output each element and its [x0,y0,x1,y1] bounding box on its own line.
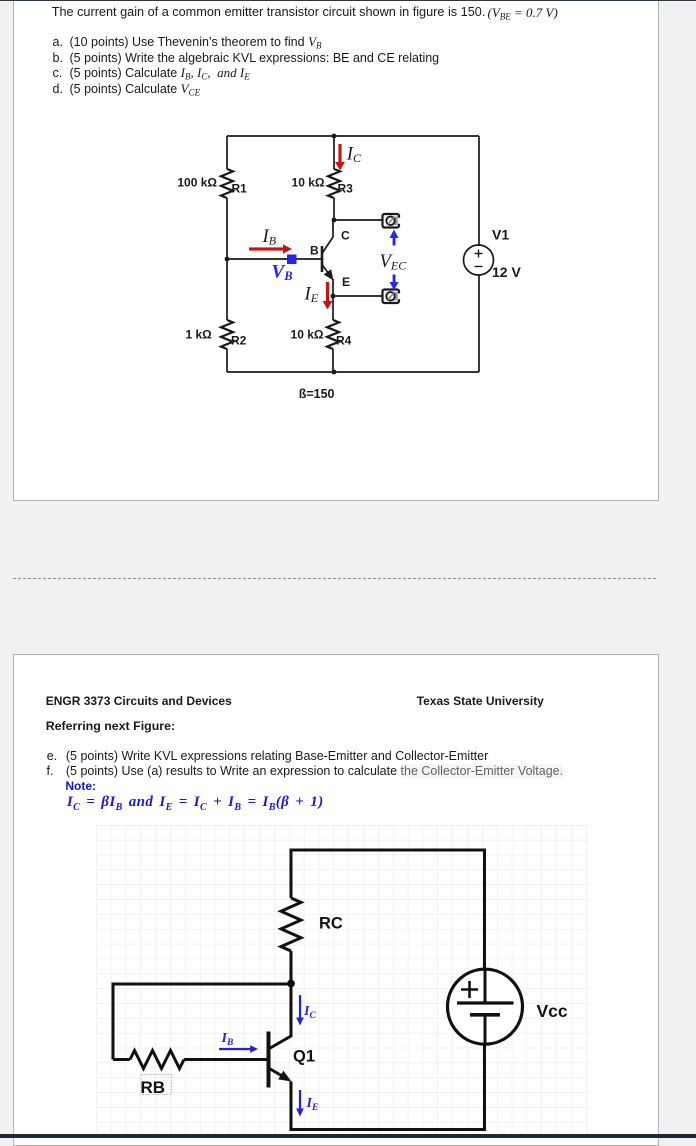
svg-text:Vcc: Vcc [537,1001,568,1021]
svg-text:IC: IC [346,144,362,165]
svg-text:R3: R3 [338,182,354,196]
svg-text:100 kΩ: 100 kΩ [177,175,217,189]
svg-text:1 kΩ: 1 kΩ [185,327,212,341]
svg-text:C: C [341,229,350,243]
svg-text:RC: RC [319,915,343,933]
svg-text:R1: R1 [232,182,248,196]
svg-text:12 V: 12 V [492,264,521,280]
svg-text:ß=150: ß=150 [299,387,335,401]
svg-text:V1: V1 [492,227,509,243]
svg-text:E: E [342,275,350,289]
svg-text:B: B [310,244,319,258]
svg-text:10 kΩ: 10 kΩ [292,175,325,189]
svg-text:Q1: Q1 [293,1048,315,1066]
svg-text:VEC: VEC [380,251,408,273]
svg-text:IE: IE [304,284,319,306]
svg-text:VB: VB [272,261,293,283]
svg-text:R4: R4 [336,334,352,348]
svg-text:RB: RB [141,1078,166,1097]
svg-text:10 kΩ: 10 kΩ [291,327,324,341]
svg-text:IB: IB [262,226,277,247]
svg-text:R2: R2 [231,334,247,348]
